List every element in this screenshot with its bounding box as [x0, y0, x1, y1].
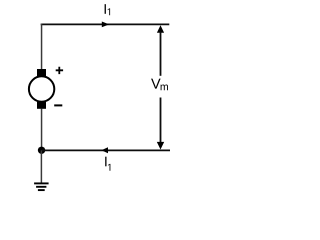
voltage arrow Vm: lower down-pointing arrowhead — [157, 142, 164, 150]
voltage arrow Vm: lower line segment — [160, 98, 162, 144]
wire: top horizontal (source + terminal to right side) — [41, 23, 170, 25]
label Vm: letter V — [151, 79, 161, 89]
wire: bottom horizontal (junction to right side) — [42, 149, 170, 151]
label: - polarity of source — [54, 104, 62, 106]
label I1 (bottom): subscript 1 — [108, 164, 110, 171]
label I1 (bottom): letter I — [105, 157, 106, 167]
node: junction of source, bottom wire and ground — [38, 147, 45, 154]
wire: ground stem — [40, 150, 42, 182]
wire: left vertical (top corner down to source + brush) — [41, 24, 43, 70]
arrowhead: top current arrow I1 (points right) — [102, 22, 109, 28]
motor/source U1: bottom brush terminal — [37, 101, 46, 109]
motor/source U1: top brush terminal — [37, 69, 46, 77]
label I1 (top): subscript 1 — [108, 8, 110, 15]
ground symbol — [34, 183, 49, 190]
wire: source - brush down to junction node — [41, 109, 43, 151]
motor/source U1: body circle — [29, 76, 54, 101]
label Vm: subscript m — [161, 85, 168, 91]
arrowhead: bottom current arrow I1 (points left) — [101, 147, 108, 153]
voltage arrow Vm: upper up-pointing arrowhead — [157, 25, 164, 33]
label: + polarity of source — [56, 67, 63, 74]
voltage arrow Vm: upper line segment — [160, 32, 162, 76]
label I1 (top): letter I — [105, 4, 106, 14]
